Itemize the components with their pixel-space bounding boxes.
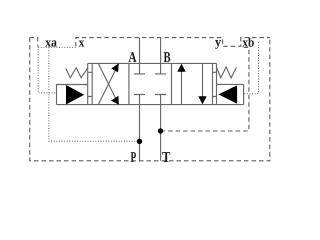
arrowhead of diagonal 2 (up-right) xyxy=(111,63,119,72)
box boundary center-right xyxy=(171,63,173,104)
valve main body bottom edge xyxy=(57,104,244,106)
center box port B stub blocked xyxy=(155,63,166,74)
pilot line x notch bottom (dotted) xyxy=(38,46,76,48)
svg-text:y: y xyxy=(215,34,222,49)
svg-text:T: T xyxy=(162,150,170,166)
pilot line xa (dotted) xyxy=(38,47,56,93)
port line P xyxy=(139,105,141,161)
right box flow line down xyxy=(202,63,204,100)
arrowhead right box up arrow xyxy=(177,64,185,72)
drain line y (dashed) xyxy=(161,48,249,132)
arrowhead right box down arrow xyxy=(198,96,206,104)
left box crossed flow diagonal 2 xyxy=(98,63,119,104)
spring bracket left vertical xyxy=(87,63,89,104)
valve main body top edge xyxy=(88,62,217,64)
pilot line x to P (dotted) xyxy=(49,47,140,141)
junction dot on T line xyxy=(158,128,163,133)
spring right xyxy=(217,67,237,78)
junction dot on P line xyxy=(137,139,142,144)
port line A xyxy=(139,38,141,64)
pilot actuator triangle right xyxy=(218,85,237,104)
connector ticks left xyxy=(88,72,93,96)
pilot actuator box right xyxy=(217,84,244,104)
connector ticks right xyxy=(213,72,217,96)
valve left box left edge xyxy=(91,63,93,104)
port line B xyxy=(160,38,162,64)
center box port T stub blocked xyxy=(155,95,166,105)
left box crossed flow diagonal 1 xyxy=(98,63,119,104)
spring bracket right vertical xyxy=(216,63,218,104)
right box flow line up xyxy=(181,68,183,105)
arrowhead of diagonal 1 (down-right) xyxy=(111,96,119,105)
pilot actuator box left xyxy=(57,85,88,105)
svg-text:x: x xyxy=(79,34,85,49)
outer housing dashed border xyxy=(30,38,270,161)
valve right box right edge xyxy=(212,63,214,104)
box boundary left-center xyxy=(128,63,130,104)
pilot line xb (dotted) xyxy=(244,42,259,94)
center box port P stub blocked xyxy=(134,95,145,105)
svg-text:P: P xyxy=(131,150,137,166)
spring left xyxy=(66,68,88,78)
pilot actuator triangle left xyxy=(66,85,84,105)
center box port A stub blocked xyxy=(134,63,145,74)
port line T xyxy=(160,105,162,161)
